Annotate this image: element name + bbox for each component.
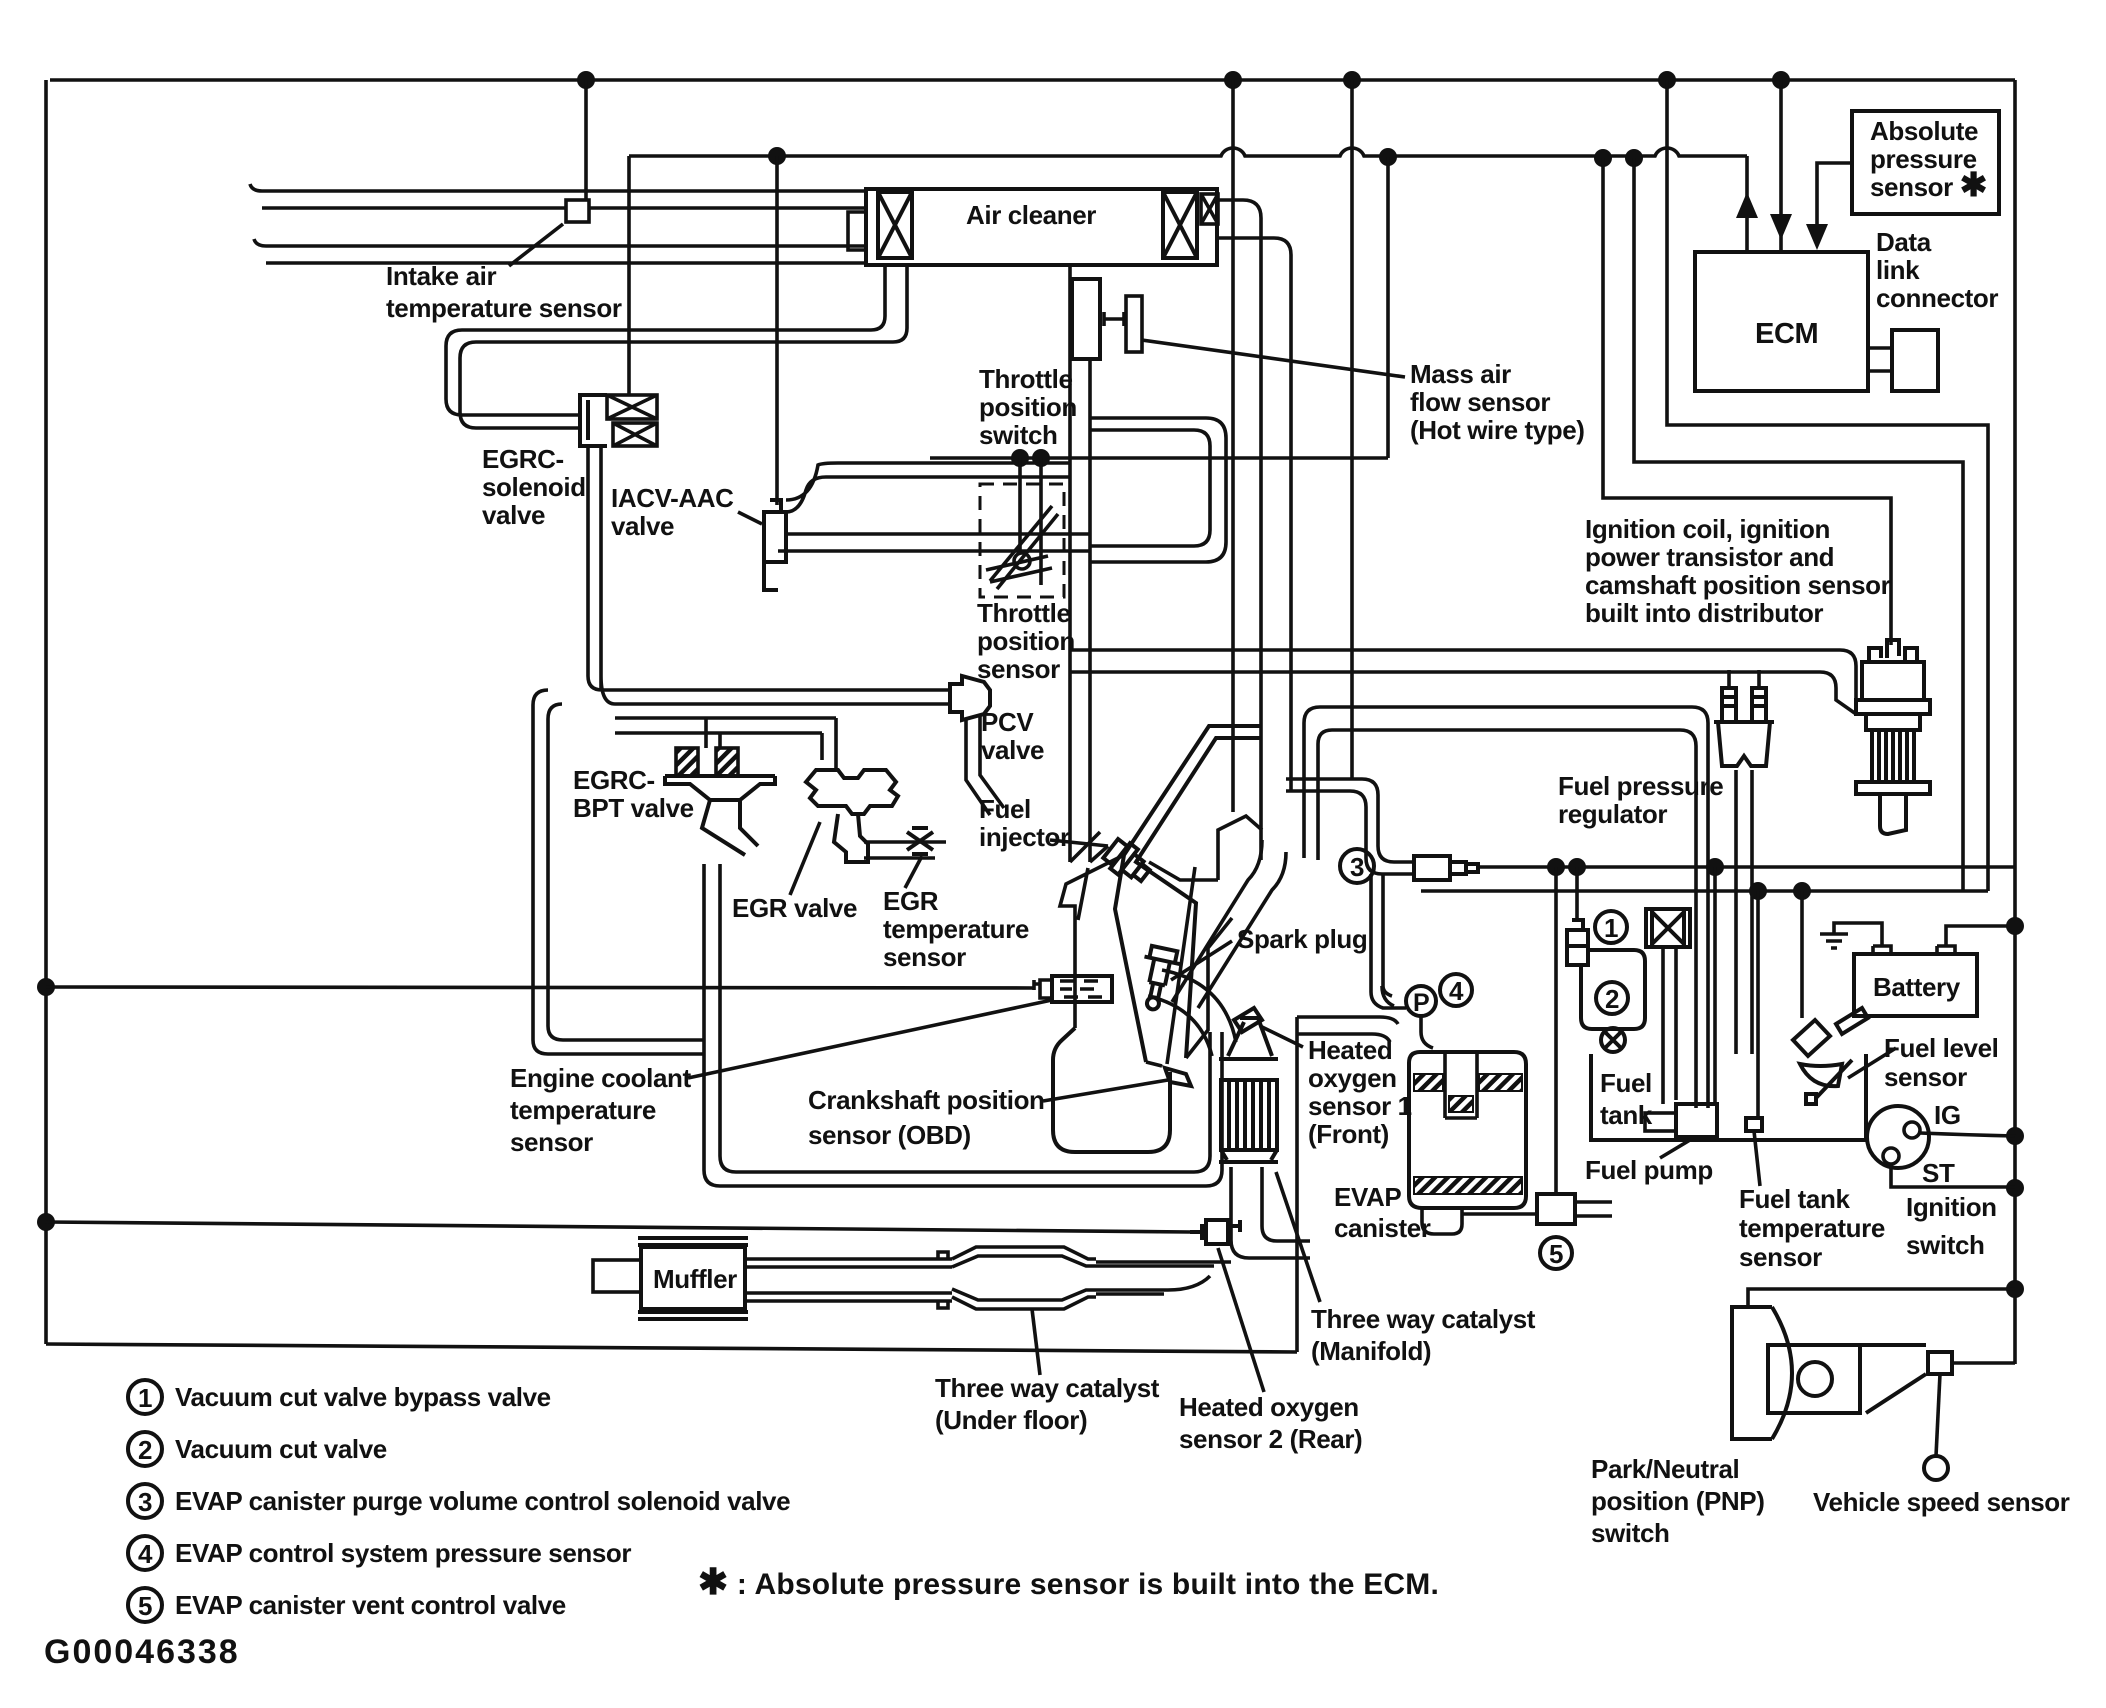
pipe bottom run to engine [720,1032,1222,1186]
pipe fuel feed pair [1320,707,1708,1108]
IACV-AAC valve body [764,500,786,590]
circled 5 [1540,1237,1572,1269]
air cleaner element small [1201,194,1218,224]
muffler bottom cap [638,1312,748,1319]
svg-text:2: 2 [1605,984,1619,1014]
distributor base [1856,782,1930,834]
wire ST [1891,1164,2015,1187]
legend circled 5 [128,1588,162,1622]
wire callout MAF [1142,340,1405,377]
svg-text:switch: switch [1591,1518,1670,1548]
wire border right [2013,80,2017,1364]
EVAP canister vent control valve [1537,1194,1575,1224]
pipe to PCV lower [615,702,950,706]
svg-text:IG: IG [1934,1100,1961,1130]
svg-text:5: 5 [1549,1239,1563,1269]
node dot top 1 [577,71,595,89]
heated oxygen sensor 1 [1234,1008,1262,1032]
pipe vent to frame [1297,1017,1398,1042]
pipe duct downpipe right [1198,852,1286,1008]
EGRC-solenoid valve coil lower [613,423,657,446]
svg-text:EGR: EGR [883,886,939,916]
svg-text:Fuel pressure: Fuel pressure [1558,771,1723,801]
node dot wire2 c [1594,149,1612,167]
svg-text:EVAP canister vent control val: EVAP canister vent control valve [175,1590,566,1620]
svg-text:sensor: sensor [977,654,1060,684]
wire vehicle speed sensor [1936,1374,1940,1456]
throttle position sensor dashed box [980,484,1064,597]
wire ECM up arrow [1745,156,1749,252]
pipe purge hose pair [1286,779,1414,874]
node dot fuel a [1749,882,1767,900]
engine coolant temperature sensor [1034,976,1112,1002]
svg-text:temperature: temperature [1739,1213,1885,1243]
wire intake air temp sensor drop [584,80,588,200]
svg-text:EGR valve: EGR valve [732,893,857,923]
svg-text:(Under floor): (Under floor) [935,1405,1087,1435]
svg-text:Fuel level: Fuel level [1884,1033,1999,1063]
pipe regulator inlet stubs [1729,670,1759,688]
legend circled 3 [128,1484,162,1518]
wire callout fuel injector [1050,840,1108,846]
wire intake pipe 1 bottom [262,206,866,210]
svg-text:(Manifold): (Manifold) [1311,1336,1431,1366]
legend circled 1 [128,1380,162,1414]
wire PNP to border [1952,1361,2015,1365]
pipe EGR to manifold [864,842,946,858]
wire bypass valve drop [1575,867,1579,920]
svg-text:Vacuum cut valve bypass valve: Vacuum cut valve bypass valve [175,1382,551,1412]
svg-text:oxygen: oxygen [1308,1063,1397,1093]
throttle body column right [1088,359,1092,862]
node dot purge a [1547,858,1565,876]
node dot right border ST [2006,1179,2024,1197]
wire callout IACV [738,512,762,524]
air cleaner element left [878,192,912,258]
svg-text:Fuel tank: Fuel tank [1739,1184,1850,1214]
ignition switch IG terminal [1904,1122,1920,1138]
pipe IACV hose upper [786,463,1070,512]
pipe intake runner right [1136,738,1262,1058]
pipe bottom-left link upper [533,1026,704,1054]
vacuum cut valve bypass valve [1567,920,1588,965]
wire callout fuel pump [1660,1140,1690,1158]
fuel tank box [1591,1054,1866,1140]
svg-text:valve: valve [482,500,545,530]
fuel pump [1676,1104,1717,1137]
wire fuel pump power [1713,867,1717,1104]
pipe catalyst downpipe [1231,1167,1310,1258]
svg-text:Three way catalyst: Three way catalyst [1311,1304,1536,1334]
svg-text:3: 3 [138,1487,152,1517]
node dot right border PNP [2006,1280,2024,1298]
wire TPS drop 1 [1018,458,1022,552]
svg-text:position: position [979,392,1077,422]
svg-text:ST: ST [1922,1158,1955,1188]
EGRC-solenoid valve bracket [580,395,607,446]
svg-text:4: 4 [138,1539,153,1569]
engine block outline [1060,855,1232,1066]
wire callout underfloor catalyst [1032,1309,1040,1375]
arrowhead down abs [1806,224,1828,250]
air cleaner inlet notch [848,212,866,250]
engine oil pan [1053,1028,1170,1152]
absolute pressure sensor box [1852,111,1999,214]
svg-text:temperature: temperature [510,1095,656,1125]
spark plug [1134,945,1182,1013]
svg-text:sensor: sensor [510,1127,593,1157]
fuel tank temperature sensor [1746,1118,1762,1131]
wire fuel level sensor drop [1800,891,1804,1018]
node dot top 4 [1658,71,1676,89]
pipe vent valve [1462,1202,1612,1216]
EVAP canister hatch bands [1414,1074,1522,1194]
svg-text:valve: valve [611,511,674,541]
wire callout HO2S2 [1218,1248,1264,1392]
wire ECM supply 2 [1779,80,1783,252]
wire TPS drop 2 [1039,458,1043,585]
node dot wire2 d [1625,149,1643,167]
pipe duct downpipe left [1172,840,1262,1002]
distributor flange [1856,700,1930,714]
circled 2 [1596,982,1628,1014]
svg-text:Fuel pump: Fuel pump [1585,1155,1713,1185]
EVAP canister funnel [1422,1208,1462,1234]
PNP switch circle [1798,1362,1832,1396]
svg-text:EGRC-: EGRC- [482,444,564,474]
wire callout intake air temp [509,224,563,266]
svg-text:built into distributor: built into distributor [1585,598,1823,628]
svg-text:5: 5 [138,1591,152,1621]
pipe intake runner left [1115,726,1262,1062]
wire right column feed [1634,158,1963,891]
svg-text:Ignition: Ignition [1906,1192,1997,1222]
svg-text:3: 3 [1350,852,1364,882]
ignition switch ST terminal [1883,1148,1899,1164]
EVAP canister outer [1409,1052,1526,1208]
throttle plate lever [986,506,1058,589]
crankshaft position sensor [1165,1068,1191,1086]
wire fuel line drop [1231,80,1235,812]
svg-text:ECM: ECM [1755,318,1818,350]
pipe fuel feed diagonal [1070,832,1108,862]
svg-text:BPT valve: BPT valve [573,793,694,823]
PNP switch bell [1732,1307,1792,1439]
EGRC-BPT valve body [665,776,775,855]
three way catalyst under floor [952,1247,1096,1309]
svg-text:solenoid: solenoid [482,472,586,502]
svg-text:Fuel: Fuel [1600,1068,1652,1098]
svg-text:Ignition coil, ignition: Ignition coil, ignition [1585,514,1830,544]
wire IG [1920,1133,2015,1136]
node dot top 2 [1224,71,1242,89]
svg-text:G00046338: G00046338 [44,1633,240,1671]
EVAP control system pressure sensor P [1406,986,1436,1017]
fuel pump sock [1645,1113,1676,1131]
svg-text:PCV: PCV [981,707,1034,737]
node dot TPS 2 [1032,449,1050,467]
ECM box [1695,252,1868,391]
wire PNP feed [1748,1289,2015,1307]
svg-text:power transistor and: power transistor and [1585,542,1834,572]
svg-text:Spark plug: Spark plug [1237,924,1367,954]
battery box [1854,954,1977,1016]
pipe purge down to P [1371,874,1406,1008]
node dot battery positive [2006,917,2024,935]
pipe exhaust to downpipe [1096,1262,1231,1294]
wire callout HO2S1 [1260,1026,1303,1047]
node dot top 5 [1772,71,1790,89]
svg-text:position (PNP): position (PNP) [1591,1486,1765,1516]
wire callout spark plug [1171,941,1232,980]
wire purge solenoid feed [1478,865,2015,869]
vacuum cut valve symbol [1601,1028,1625,1052]
svg-text:Throttle: Throttle [979,364,1073,394]
pipe EGRC feed from air cleaner [446,265,907,428]
EGRC-BPT valve springs [676,748,738,776]
wire callout manifold catalyst [1276,1172,1320,1302]
svg-text:IACV-AAC: IACV-AAC [611,483,734,513]
svg-text:Heated oxygen: Heated oxygen [1179,1392,1359,1422]
wire intake pipe 1 top [250,184,866,191]
wire callout crankshaft [1043,1080,1168,1101]
node dot right border IG [2006,1127,2024,1145]
pipe air duct inner [1218,238,1291,790]
wire throttle switch bus [930,456,1388,460]
air cleaner box [866,189,1217,265]
pipe exhaust head to catalyst [1148,970,1236,1056]
svg-text:Data: Data [1876,227,1932,257]
vehicle speed sensor [1924,1456,1948,1480]
svg-text:(Hot wire type): (Hot wire type) [1410,415,1585,445]
wire border bottom [46,1344,1297,1352]
three way catalyst manifold flange bottom [1219,1150,1278,1162]
svg-text:sensor: sensor [883,942,966,972]
EGRC-solenoid valve coil upper [607,395,657,419]
pipe exhaust upper [745,1252,952,1267]
node dot top 3 [1343,71,1361,89]
muffler body [641,1247,745,1309]
wire ECM supply 1 [1667,80,1988,891]
node dot TPS 1 [1011,449,1029,467]
node dot wire2 a [768,147,786,165]
wire intake pipe 2 top [254,239,866,246]
svg-text:sensor 1: sensor 1 [1308,1091,1412,1121]
wire main border top [50,78,2015,82]
svg-text:P: P [1413,989,1429,1017]
wire abs sensor to ECM [1817,163,1852,245]
wire second horizontal [629,148,1747,156]
svg-text:Muffler: Muffler [653,1264,737,1294]
wire fuel tank temp sensor [1754,891,1760,1186]
svg-text:Absolute: Absolute [1870,116,1978,146]
wire vent valve control [1554,867,1558,1194]
PNP switch connector [1928,1352,1952,1374]
heated oxygen sensor 2 [1190,1220,1240,1244]
muffler inlet pipe [593,1260,641,1292]
svg-text:sensor ✱: sensor ✱ [1870,166,1987,203]
EGR temperature sensor [907,828,933,854]
throttle body column left [1068,265,1072,862]
svg-text:Engine coolant: Engine coolant [510,1063,691,1093]
svg-text:1: 1 [1604,913,1618,943]
wire fuel area second [1421,889,1988,893]
air cleaner element right [1163,192,1197,258]
battery terminals [1873,926,2015,954]
svg-text:camshaft position sensor: camshaft position sensor [1585,570,1891,600]
svg-text:sensor: sensor [1884,1062,1967,1092]
wire callout fuel level sensor [1848,1048,1896,1078]
svg-text:4: 4 [1449,976,1464,1006]
wire EGRC solenoid control [627,156,631,395]
svg-text:EVAP canister purge volume con: EVAP canister purge volume control solen… [175,1486,790,1516]
wire spark plug axis [1167,867,1195,1064]
svg-text:EVAP: EVAP [1334,1182,1401,1212]
svg-text:Vacuum cut valve: Vacuum cut valve [175,1434,387,1464]
svg-text:Throttle: Throttle [977,598,1071,628]
throttle plate pivot [1014,553,1030,569]
pipe fuel line bend down [1304,707,1332,860]
fuel injector body [1101,836,1155,888]
svg-text:2: 2 [138,1435,152,1465]
svg-text:link: link [1876,255,1920,285]
intake air temperature sensor [566,200,589,222]
distributor cap towers [1869,640,1917,662]
pipe EGR down pair [704,864,736,1186]
svg-text:Fuel: Fuel [979,794,1031,824]
svg-text:(Front): (Front) [1308,1119,1389,1149]
wire ignition distributor feed [1603,158,1891,645]
node dot wire2 b [1379,148,1397,166]
svg-text:canister: canister [1334,1213,1431,1243]
pipe IACV loop inner [1090,430,1210,546]
svg-text:Mass air: Mass air [1410,359,1511,389]
arrowhead down ECM supply [1770,214,1792,240]
pipe left down branch [533,690,562,1040]
wire vent frame vertical [1295,1017,1299,1352]
EVAP canister inner tube [1445,1052,1477,1118]
pipe air duct outer [1218,200,1261,860]
circled 3 [1340,849,1374,883]
node dot fuel b [1793,882,1811,900]
pipe filler neck left [1663,947,1676,1104]
wire TPS riser [1386,157,1390,458]
wire ECT sensor lead [46,987,1034,988]
svg-text:EGRC-: EGRC- [573,765,655,795]
fuel pressure regulator rings [1722,688,1766,722]
svg-text:regulator: regulator [1558,799,1667,829]
svg-text:switch: switch [1906,1230,1985,1260]
pipe exhaust lower [745,1293,952,1308]
fuel pressure regulator body [1714,722,1774,766]
pipe IACV hose lower [778,534,1090,551]
three way catalyst manifold body [1221,1080,1277,1150]
EVAP purge volume control solenoid valve [1414,856,1478,880]
mass air flow sensor probe [1104,312,1124,326]
PCV valve [950,676,990,720]
circled 4 [1440,974,1472,1006]
solenoid X box fuel [1646,909,1690,947]
svg-text:Intake air: Intake air [386,261,496,291]
svg-text:switch: switch [979,420,1058,450]
pipe regulator outlet down [1736,770,1752,1054]
pipe drop to EGR valve [822,718,836,768]
circled 1 [1595,911,1627,943]
svg-text:position: position [977,626,1075,656]
pipe advance to distributor [1836,666,1856,714]
wire DLC links [1868,348,1892,371]
ground symbol [1820,923,1882,948]
engine head diagonals [1149,816,1262,880]
wire border left [44,80,48,1344]
node dot purge b [1568,858,1586,876]
svg-text:sensor (OBD): sensor (OBD) [808,1120,971,1150]
PNP switch body [1768,1345,1860,1413]
three way catalyst manifold funnel [1219,1018,1278,1059]
muffler top cap [638,1238,748,1245]
svg-text:injector: injector [979,822,1070,852]
node dot left border 2 [37,1213,55,1231]
fuel level sensor assembly [1793,1008,1868,1104]
pipe to PCV upper [602,688,950,692]
vacuum cut valve box [1581,950,1645,1029]
svg-text:sensor 2 (Rear): sensor 2 (Rear) [1179,1424,1362,1454]
distributor cap [1862,662,1924,700]
svg-text:valve: valve [981,735,1044,765]
svg-text:EVAP control system pressure s: EVAP control system pressure sensor [175,1538,631,1568]
pipe EGRC solenoid outlet down [588,446,615,704]
distributor body [1866,714,1920,782]
ignition switch circle [1867,1106,1929,1168]
mass air flow sensor body [1072,279,1100,359]
svg-text:Air cleaner: Air cleaner [966,200,1096,230]
mass air flow sensor connector [1126,296,1142,352]
svg-text:Heated: Heated [1308,1035,1392,1065]
svg-text:temperature: temperature [883,914,1029,944]
PNP switch tail [1860,1345,1926,1413]
arrowhead up [1736,192,1758,218]
pipe vacuum advance upper [1070,650,1856,688]
wire callout EGR valve [790,822,820,895]
pipe IACV loop outer [1090,418,1226,562]
node dot left border 1 [37,978,55,996]
svg-text:Park/Neutral: Park/Neutral [1591,1454,1739,1484]
wire purge line drop [1350,80,1354,779]
svg-text:Battery: Battery [1873,972,1961,1002]
legend circled 2 [128,1432,162,1466]
svg-text:Three way catalyst: Three way catalyst [935,1373,1160,1403]
svg-text:1: 1 [138,1383,152,1413]
svg-text:sensor: sensor [1739,1242,1822,1272]
svg-text:temperature sensor: temperature sensor [386,293,622,323]
data link connector box [1892,330,1938,391]
wire callout EGR temp sensor [905,856,922,888]
pipe drop to EGRC-BPT [706,718,720,748]
svg-text:Crankshaft position: Crankshaft position [808,1085,1045,1115]
pipe EGR feed lower pair [615,718,836,733]
pipe P sensor drop [1382,986,1433,1048]
wire callout engine coolant [688,1000,1052,1078]
svg-text:✱ : Absolute pressure sensor i: ✱ : Absolute pressure sensor is built in… [698,1561,1439,1602]
wire oxygen sensor lead [46,1222,1190,1232]
pipe PCV down [966,716,1004,815]
svg-text:flow sensor: flow sensor [1410,387,1550,417]
legend circled 4 [128,1536,162,1570]
svg-text:connector: connector [1876,283,1998,313]
svg-text:Vehicle speed sensor: Vehicle speed sensor [1813,1487,2070,1517]
node dot purge c [1706,858,1724,876]
wire intake pipe 2 bottom [266,261,866,265]
